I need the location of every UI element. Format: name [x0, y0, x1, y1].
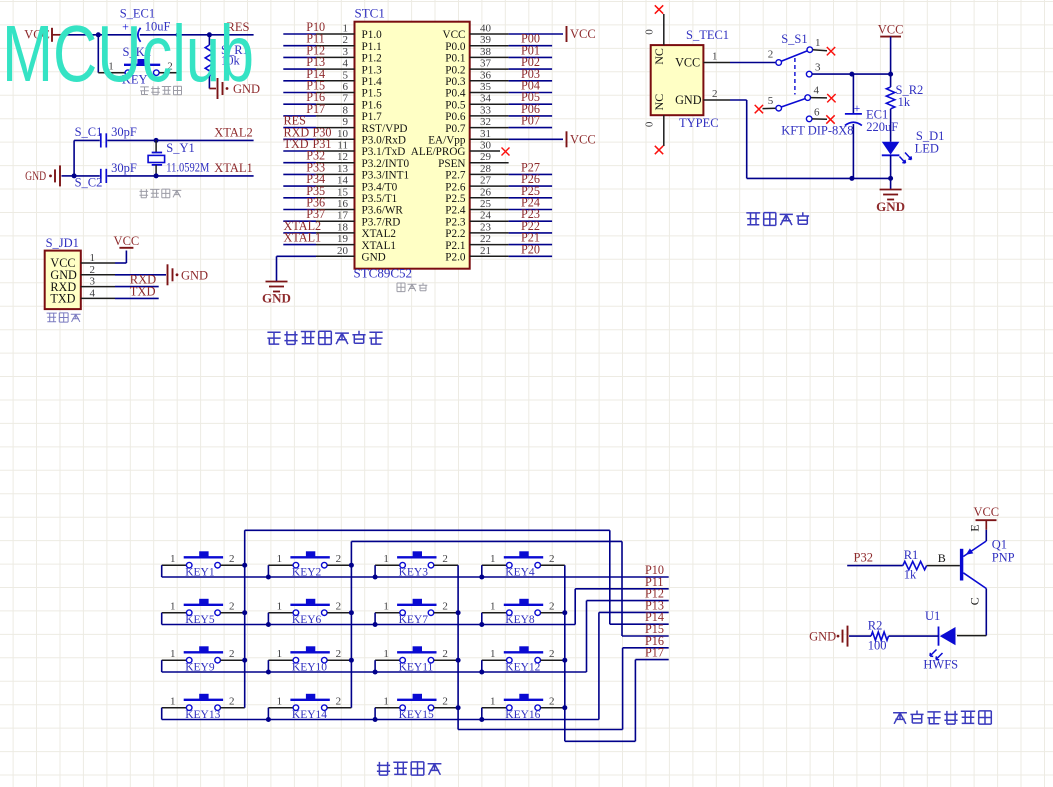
- svg-text:ALE/PROG: ALE/PROG: [411, 146, 466, 158]
- svg-text:XTAL1: XTAL1: [284, 231, 322, 245]
- svg-text:2: 2: [229, 648, 235, 660]
- svg-text:0: 0: [644, 29, 656, 35]
- svg-text:P20: P20: [521, 242, 540, 256]
- svg-text:P1.5: P1.5: [362, 88, 383, 100]
- svg-text:P0.6: P0.6: [445, 111, 466, 123]
- svg-text:P1.2: P1.2: [362, 53, 382, 65]
- svg-text:1: 1: [383, 696, 389, 708]
- svg-text:GND: GND: [809, 630, 836, 644]
- svg-text:2: 2: [336, 648, 342, 660]
- svg-text:PNP: PNP: [992, 551, 1015, 565]
- svg-text:VCC: VCC: [675, 56, 700, 70]
- svg-text:P2.7: P2.7: [445, 170, 466, 182]
- svg-text:Q1: Q1: [992, 538, 1007, 552]
- svg-text:12: 12: [337, 151, 348, 163]
- svg-text:TXD: TXD: [50, 292, 75, 306]
- svg-text:24: 24: [480, 210, 492, 222]
- svg-text:GND: GND: [262, 291, 291, 306]
- svg-text:21: 21: [480, 245, 491, 257]
- svg-text:35: 35: [480, 81, 492, 93]
- svg-text:VCC: VCC: [114, 234, 140, 248]
- svg-text:PSEN: PSEN: [438, 158, 465, 170]
- svg-text:32: 32: [480, 116, 491, 128]
- svg-text:GND: GND: [362, 252, 386, 264]
- svg-text:28: 28: [480, 163, 492, 175]
- svg-text:30pF: 30pF: [111, 161, 137, 175]
- svg-text:8: 8: [343, 104, 349, 116]
- svg-text:2: 2: [549, 696, 555, 708]
- svg-text:HWFS: HWFS: [923, 658, 958, 672]
- svg-text:31: 31: [480, 128, 491, 140]
- svg-text:GND: GND: [181, 269, 208, 283]
- svg-text:EA/Vpp: EA/Vpp: [428, 135, 466, 147]
- svg-text:2: 2: [712, 88, 718, 100]
- svg-text:27: 27: [480, 175, 492, 187]
- svg-text:XTAL2: XTAL2: [214, 125, 253, 139]
- svg-text:P0.4: P0.4: [445, 88, 466, 100]
- svg-text:NC: NC: [652, 94, 666, 111]
- svg-text:P2.4: P2.4: [445, 205, 466, 217]
- svg-text:6: 6: [343, 81, 349, 93]
- svg-text:1: 1: [170, 553, 176, 565]
- svg-text:P0.0: P0.0: [445, 41, 466, 53]
- svg-text:B: B: [938, 551, 946, 565]
- svg-text:NC: NC: [652, 48, 666, 65]
- svg-text:2: 2: [229, 601, 235, 613]
- svg-text:1: 1: [170, 648, 176, 660]
- svg-text:P0.5: P0.5: [445, 99, 466, 111]
- svg-text:VCC: VCC: [570, 132, 596, 146]
- svg-text:VCC: VCC: [442, 29, 465, 41]
- svg-text:S_C2: S_C2: [75, 176, 103, 190]
- svg-text:3: 3: [89, 276, 95, 288]
- svg-text:4: 4: [343, 58, 349, 70]
- svg-text:LED: LED: [915, 142, 939, 156]
- svg-text:MCUclub: MCUclub: [2, 9, 254, 98]
- svg-text:TXD: TXD: [284, 137, 309, 151]
- svg-text:1: 1: [383, 601, 389, 613]
- svg-text:1: 1: [277, 601, 283, 613]
- svg-text:10: 10: [337, 128, 349, 140]
- svg-text:XTAL1: XTAL1: [214, 161, 253, 175]
- svg-text:P1.3: P1.3: [362, 64, 383, 76]
- svg-text:P17: P17: [306, 102, 325, 116]
- svg-text:22: 22: [480, 233, 491, 245]
- svg-text:P32: P32: [854, 551, 873, 565]
- svg-text:7: 7: [343, 93, 349, 105]
- svg-text:P2.0: P2.0: [445, 252, 466, 264]
- svg-text:33: 33: [480, 104, 492, 116]
- svg-text:XTAL1: XTAL1: [362, 240, 397, 252]
- svg-text:2: 2: [336, 553, 342, 565]
- svg-text:19: 19: [337, 233, 349, 245]
- svg-text:0: 0: [644, 121, 656, 127]
- svg-text:1: 1: [383, 648, 389, 660]
- svg-text:1: 1: [89, 252, 95, 264]
- svg-text:16: 16: [337, 198, 349, 210]
- svg-text:P3.2/INT0: P3.2/INT0: [362, 158, 410, 170]
- svg-text:23: 23: [480, 221, 492, 233]
- svg-text:1: 1: [383, 553, 389, 565]
- svg-text:P2.5: P2.5: [445, 193, 466, 205]
- svg-text:11.0592M: 11.0592M: [166, 161, 209, 175]
- svg-text:STC1: STC1: [355, 6, 385, 21]
- svg-text:KFT DIP-8X8: KFT DIP-8X8: [781, 124, 853, 138]
- svg-text:2: 2: [549, 601, 555, 613]
- svg-text:17: 17: [337, 210, 349, 222]
- svg-text:1: 1: [490, 553, 496, 565]
- svg-text:S_S1: S_S1: [781, 32, 807, 46]
- svg-text:P0.1: P0.1: [445, 53, 465, 65]
- svg-text:26: 26: [480, 186, 492, 198]
- svg-text:P2.1: P2.1: [445, 240, 465, 252]
- svg-text:RST/VPD: RST/VPD: [362, 123, 408, 135]
- svg-text:2: 2: [768, 49, 774, 61]
- svg-text:P07: P07: [521, 114, 540, 128]
- svg-text:5: 5: [768, 95, 774, 107]
- svg-text:3: 3: [815, 62, 821, 74]
- svg-text:P1.6: P1.6: [362, 99, 383, 111]
- svg-text:14: 14: [337, 175, 349, 187]
- svg-text:P17: P17: [645, 646, 664, 660]
- svg-text:2: 2: [229, 696, 235, 708]
- svg-text:1: 1: [277, 696, 283, 708]
- svg-text:29: 29: [480, 151, 492, 163]
- svg-text:P3.0/RxD: P3.0/RxD: [362, 135, 406, 147]
- svg-text:P3.1/TxD: P3.1/TxD: [362, 146, 406, 158]
- svg-text:P1.0: P1.0: [362, 29, 383, 41]
- svg-text:100: 100: [868, 639, 887, 653]
- svg-text:220uF: 220uF: [866, 120, 898, 134]
- svg-text:U1: U1: [925, 609, 940, 623]
- svg-text:2: 2: [549, 648, 555, 660]
- svg-text:18: 18: [337, 221, 349, 233]
- svg-text:R1: R1: [904, 548, 919, 562]
- svg-text:P3.3/INT1: P3.3/INT1: [362, 170, 410, 182]
- svg-text:STC89C52: STC89C52: [354, 266, 413, 281]
- svg-text:1: 1: [490, 601, 496, 613]
- svg-text:+: +: [854, 103, 861, 115]
- svg-text:30: 30: [480, 140, 492, 152]
- svg-text:C: C: [968, 597, 982, 605]
- svg-text:XTAL2: XTAL2: [362, 228, 397, 240]
- svg-text:9: 9: [343, 116, 349, 128]
- svg-text:25: 25: [480, 198, 492, 210]
- svg-text:S_JD1: S_JD1: [46, 236, 79, 250]
- svg-text:P0.7: P0.7: [445, 123, 466, 135]
- svg-text:11: 11: [337, 140, 348, 152]
- svg-text:2: 2: [549, 553, 555, 565]
- svg-text:1: 1: [815, 37, 821, 49]
- svg-text:1: 1: [170, 601, 176, 613]
- svg-text:P2.3: P2.3: [445, 216, 466, 228]
- svg-text:2: 2: [442, 696, 448, 708]
- svg-text:1k: 1k: [898, 95, 911, 109]
- svg-text:39: 39: [480, 34, 492, 46]
- svg-text:TYPEC: TYPEC: [679, 116, 719, 130]
- svg-text:P1.1: P1.1: [362, 41, 382, 53]
- svg-text:S_TEC1: S_TEC1: [686, 28, 729, 42]
- svg-text:40: 40: [480, 23, 492, 35]
- svg-text:1k: 1k: [904, 568, 917, 582]
- svg-text:E: E: [968, 524, 982, 531]
- svg-text:38: 38: [480, 46, 492, 58]
- svg-text:P2.2: P2.2: [445, 228, 465, 240]
- svg-text:TXD: TXD: [130, 284, 156, 298]
- svg-text:VCC: VCC: [878, 23, 904, 37]
- svg-text:36: 36: [480, 69, 492, 81]
- svg-text:4: 4: [89, 287, 95, 299]
- svg-text:GND: GND: [25, 169, 46, 183]
- svg-text:2: 2: [229, 553, 235, 565]
- svg-text:5: 5: [343, 69, 349, 81]
- svg-text:VCC: VCC: [570, 27, 596, 41]
- svg-text:3: 3: [343, 46, 349, 58]
- svg-text:34: 34: [480, 93, 492, 105]
- svg-text:30pF: 30pF: [111, 125, 137, 139]
- svg-text:P2.6: P2.6: [445, 181, 466, 193]
- svg-text:37: 37: [480, 58, 492, 70]
- svg-text:1: 1: [490, 696, 496, 708]
- svg-text:GND: GND: [876, 199, 905, 214]
- svg-text:P3.4/T0: P3.4/T0: [362, 181, 398, 193]
- svg-text:GND: GND: [675, 93, 702, 107]
- svg-text:P0.3: P0.3: [445, 76, 466, 88]
- svg-text:2: 2: [336, 696, 342, 708]
- svg-text:2: 2: [89, 264, 95, 276]
- svg-text:1: 1: [170, 696, 176, 708]
- svg-text:P0.2: P0.2: [445, 64, 465, 76]
- svg-text:R2: R2: [868, 619, 883, 633]
- svg-text:VCC: VCC: [973, 505, 999, 519]
- svg-text:6: 6: [814, 107, 820, 119]
- svg-text:S_Y1: S_Y1: [166, 141, 194, 155]
- svg-text:4: 4: [813, 85, 819, 97]
- svg-text:P3.5/T1: P3.5/T1: [362, 193, 398, 205]
- svg-text:1: 1: [277, 553, 283, 565]
- svg-text:1: 1: [490, 648, 496, 660]
- svg-text:2: 2: [442, 601, 448, 613]
- svg-text:P1.4: P1.4: [362, 76, 383, 88]
- svg-text:P1.7: P1.7: [362, 111, 383, 123]
- svg-text:P3.6/WR: P3.6/WR: [362, 205, 404, 217]
- svg-text:1: 1: [277, 648, 283, 660]
- svg-text:20: 20: [337, 245, 349, 257]
- svg-text:1: 1: [712, 51, 718, 63]
- svg-text:13: 13: [337, 163, 349, 175]
- svg-text:2: 2: [336, 601, 342, 613]
- svg-text:2: 2: [343, 34, 349, 46]
- svg-text:2: 2: [442, 553, 448, 565]
- svg-text:15: 15: [337, 186, 349, 198]
- svg-text:S_C1: S_C1: [75, 125, 103, 139]
- svg-text:2: 2: [442, 648, 448, 660]
- svg-text:1: 1: [343, 23, 349, 35]
- svg-text:P3.7/RD: P3.7/RD: [362, 216, 401, 228]
